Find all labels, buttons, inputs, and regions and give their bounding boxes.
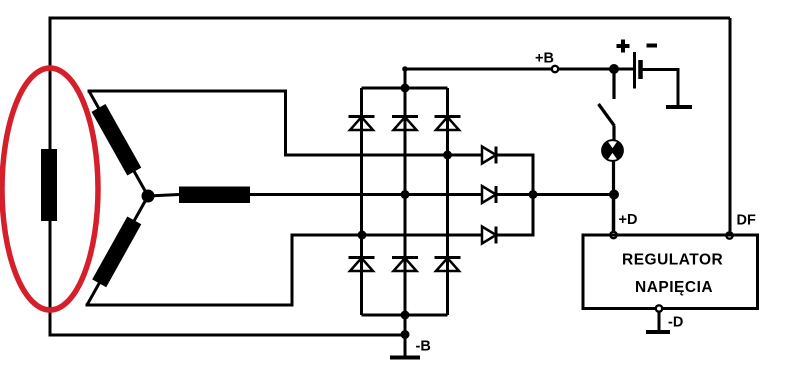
diode D3 <box>435 117 461 131</box>
wire: +D node to terminal <box>612 195 616 232</box>
ground -B <box>390 356 420 360</box>
svg-text:-B: -B <box>416 339 431 355</box>
wire: left vertical through field winding <box>49 17 52 336</box>
wire: +B feed from bridge <box>405 69 633 88</box>
switch S1 <box>599 69 615 140</box>
junction: battery node <box>609 64 619 74</box>
wire: phase V to bridge <box>250 193 482 196</box>
wire: bottom return to -B node <box>49 334 406 337</box>
diode D1 <box>349 117 375 131</box>
wire: rectifier branch 3 <box>446 88 449 315</box>
rotor field winding <box>41 149 57 221</box>
ground (battery) <box>666 105 692 109</box>
stator centre node <box>142 190 155 203</box>
terminal +B <box>552 66 558 72</box>
junction: positive bus tap <box>401 84 410 93</box>
auxiliary diode D7 <box>482 147 496 164</box>
wire: DF from top bus <box>729 18 732 232</box>
wire: -D to ground <box>658 312 661 331</box>
junction: phase U on branch 3 <box>443 151 452 160</box>
wire: rectifier branch 1 <box>360 88 363 315</box>
diode D4 <box>349 258 375 272</box>
wire: aux bus <box>496 155 533 235</box>
wire: rectifier branch 2 <box>404 88 407 315</box>
lamp (charge indicator) <box>601 139 624 162</box>
svg-text:+B: +B <box>535 51 554 67</box>
stator coil L2 lead <box>148 195 179 197</box>
terminal DF <box>726 232 732 238</box>
wire: rectifier positive bus <box>362 87 448 90</box>
battery negative plate <box>638 60 643 79</box>
wire: top bus from field winding to DF <box>50 17 730 20</box>
junction: +D node <box>609 190 619 200</box>
svg-text:NAPIĘCIA: NAPIĘCIA <box>635 279 713 296</box>
junction: aux bus mid <box>529 190 538 199</box>
ground -D <box>646 330 670 334</box>
wire: rectifier negative bus <box>362 314 448 317</box>
wire: phase W to bridge <box>87 235 482 305</box>
stator coil L3 lead <box>87 196 148 305</box>
wire: phase U to bridge <box>89 91 482 155</box>
auxiliary diode D8 <box>482 186 496 203</box>
wire: battery negative lead <box>643 70 679 108</box>
wire: negative bus to ground <box>404 315 407 357</box>
regulator box <box>583 235 758 309</box>
svg-text:DF: DF <box>737 213 756 229</box>
svg-text:+D: +D <box>619 212 638 228</box>
junction: -B node <box>401 330 410 339</box>
junction: phase V on branch 2 <box>401 190 410 199</box>
diode D5 <box>392 258 418 272</box>
battery plus sign <box>617 40 630 53</box>
battery minus sign <box>647 44 658 48</box>
svg-text:-D: -D <box>668 315 683 331</box>
junction: negative bus tap <box>401 311 410 320</box>
diode D6 <box>435 258 461 272</box>
junction: +B corner <box>402 66 408 72</box>
stator coil L3 <box>99 220 134 283</box>
junction: phase W on branch 1 <box>358 231 367 240</box>
svg-text:REGULATOR: REGULATOR <box>622 252 723 269</box>
auxiliary diode D9 <box>482 227 496 244</box>
terminal -D <box>656 305 662 311</box>
wire: aux diode D8 output <box>496 193 533 196</box>
red highlight ellipse <box>2 68 98 310</box>
stator coil L1 <box>99 108 135 172</box>
battery positive plate <box>633 52 636 89</box>
terminal +D <box>610 232 616 238</box>
stator coil L2 <box>179 187 250 204</box>
stator coil L1 lead <box>89 91 148 196</box>
wire: aux bus to +D node <box>533 193 614 196</box>
diode D2 <box>392 117 418 131</box>
wire: lamp to +D node <box>612 161 615 195</box>
